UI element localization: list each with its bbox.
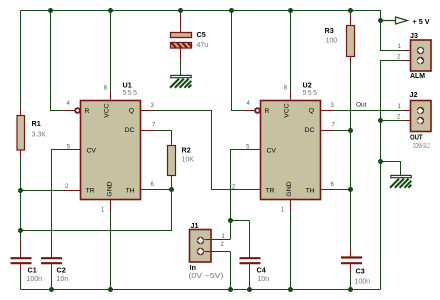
wire J1 pin1 to CV node bbox=[205, 239, 231, 241]
junction dot rail x110 bbox=[108, 8, 113, 13]
junction dot U2 GND rail bbox=[288, 287, 293, 292]
wire U1 VCC drop from rail bbox=[110, 11, 112, 91]
wire U2 reset pin stub bbox=[243, 110, 255, 112]
U1 VCC pin stub bbox=[110, 91, 112, 101]
wire C5 to ground bbox=[180, 48, 182, 59]
svg-text:47u: 47u bbox=[197, 42, 209, 49]
resistor R3 bbox=[347, 11, 355, 65]
svg-text:U2: U2 bbox=[303, 81, 312, 90]
svg-text:TH: TH bbox=[305, 188, 314, 195]
svg-text:In: In bbox=[190, 263, 197, 272]
wire left vertical from rail to R1 bbox=[20, 11, 22, 108]
svg-text:CV: CV bbox=[267, 148, 277, 155]
svg-text:VCC: VCC bbox=[284, 103, 291, 117]
svg-text:100n: 100n bbox=[355, 279, 371, 286]
svg-text:C1: C1 bbox=[28, 266, 37, 275]
timer U2 body bbox=[261, 101, 321, 200]
wire TH node down and left to node A bbox=[21, 190, 172, 231]
U1 reset bubble bbox=[74, 107, 81, 114]
J2 pin 1 circle bbox=[417, 107, 424, 114]
wire U2 CV to J1 node bbox=[231, 150, 261, 240]
wire J3 pin1 stub bbox=[403, 50, 417, 52]
wire U2 Q to J2 pin1 bbox=[321, 110, 413, 112]
wire U2 TH to node bbox=[321, 189, 351, 191]
junction dot rail x351 bbox=[348, 8, 353, 13]
J3 pin 2 circle bbox=[417, 57, 424, 64]
wire U2 DC to R3 node bbox=[321, 130, 351, 132]
svg-text:J1: J1 bbox=[191, 221, 199, 230]
capacitor C3 bbox=[341, 190, 362, 290]
svg-text:Q: Q bbox=[129, 108, 134, 115]
wire J1 pin2 to ground rail bbox=[205, 252, 231, 290]
wire U1 DC to R2 bbox=[141, 130, 172, 132]
U2 VCC pin stub bbox=[290, 91, 292, 101]
capacitor C5 drop from rail bbox=[180, 11, 182, 33]
svg-text:C3: C3 bbox=[356, 267, 365, 276]
node A dot TR junction bbox=[18, 188, 23, 193]
svg-text:J2: J2 bbox=[410, 90, 418, 99]
svg-text:10n: 10n bbox=[57, 276, 69, 283]
svg-text:J3: J3 bbox=[410, 31, 418, 40]
wire U1 CV to C2 bbox=[52, 150, 81, 241]
wire U2 GND to bottom rail bbox=[290, 200, 292, 290]
svg-text:(0V ~5V): (0V ~5V) bbox=[189, 273, 224, 280]
wire ground branch bbox=[381, 162, 401, 176]
junction dot DC R3 bbox=[348, 128, 353, 133]
wire J2 pin2 to ground vertical bbox=[381, 120, 417, 122]
wire U1 reset pin stub bbox=[63, 110, 75, 112]
J1 pin 1 circle bbox=[197, 237, 204, 244]
svg-text:C2: C2 bbox=[57, 266, 66, 275]
capacitor C4 bbox=[240, 221, 261, 290]
junction dot J2 pin2 bbox=[378, 118, 383, 123]
wire bottom ground rail bbox=[21, 289, 381, 291]
ground symbol under C5 bbox=[170, 75, 191, 87]
svg-text:555: 555 bbox=[123, 90, 138, 97]
J3 pin 1 circle bbox=[417, 47, 424, 54]
svg-text:R: R bbox=[265, 108, 270, 115]
wire left vertical R1 to node A bbox=[20, 158, 22, 241]
svg-text:Out: Out bbox=[356, 102, 367, 109]
J1 pin 2 circle bbox=[197, 248, 204, 255]
svg-text:GND: GND bbox=[286, 181, 293, 196]
svg-text:DC: DC bbox=[125, 127, 135, 134]
junction dot J1 pin2 rail bbox=[228, 287, 233, 292]
wire U2 reset drop from rail bbox=[232, 11, 243, 111]
wire U1 reset drop from rail bbox=[51, 11, 63, 111]
junction dot CV C4 J1 bbox=[228, 218, 233, 223]
junction dot U1 GND rail bbox=[108, 287, 113, 292]
U2 reset bubble bbox=[254, 107, 261, 114]
svg-text:DC: DC bbox=[305, 127, 315, 134]
wire +5V top rail bbox=[21, 11, 381, 21]
junction dot TH node U2 bbox=[348, 187, 353, 192]
ground symbol right bbox=[390, 175, 411, 187]
wire U1 GND to bottom rail bbox=[110, 200, 112, 290]
capacitor C5 negative plate hatched bbox=[171, 43, 192, 49]
svg-text:TR: TR bbox=[266, 188, 275, 195]
connector J2 body bbox=[411, 101, 432, 132]
junction dot C4 rail bbox=[247, 287, 252, 292]
junction dot +5V corner bbox=[378, 18, 383, 23]
svg-text:10K: 10K bbox=[182, 157, 195, 164]
junction dot C2 bottom rail bbox=[49, 287, 54, 292]
svg-text:TH: TH bbox=[125, 188, 134, 195]
capacitor C4 branch wire bbox=[231, 220, 250, 222]
junction dot rail x180 bbox=[178, 8, 183, 13]
capacitor C5 positive plate bbox=[171, 33, 192, 38]
svg-text:555: 555 bbox=[303, 90, 318, 97]
junction dot rail x290 bbox=[288, 8, 293, 13]
J2 pin 2 circle bbox=[417, 117, 424, 124]
junction dot rail x231 bbox=[229, 8, 234, 13]
svg-text:R: R bbox=[85, 108, 90, 115]
svg-text:100n: 100n bbox=[27, 276, 43, 283]
wire U1 TH to R2 bottom bbox=[141, 189, 172, 191]
wire U1 TR to node A bbox=[21, 190, 81, 192]
wire C1 to bottom rail corner bbox=[20, 273, 22, 290]
svg-text:C5: C5 bbox=[197, 30, 206, 39]
resistor R2 bbox=[168, 131, 176, 190]
svg-text:ALM: ALM bbox=[410, 71, 425, 80]
svg-text:CV: CV bbox=[87, 148, 97, 155]
junction dot TH R2 bbox=[169, 187, 174, 192]
junction dot ground branch bbox=[378, 159, 383, 164]
power symbol +5V arrow bbox=[382, 17, 408, 24]
junction dot rail x50 bbox=[48, 8, 53, 13]
capacitor C2 bbox=[41, 241, 62, 290]
wire U1 Q output to U2 TR bbox=[141, 111, 261, 190]
svg-text:GND: GND bbox=[107, 181, 114, 196]
svg-text:R1: R1 bbox=[32, 119, 41, 128]
svg-text:CONN-SIL2: CONN-SIL2 bbox=[413, 143, 430, 150]
svg-text:10n: 10n bbox=[258, 276, 270, 283]
svg-text:C4: C4 bbox=[257, 266, 266, 275]
svg-text:OUT: OUT bbox=[410, 133, 423, 142]
svg-text:U1: U1 bbox=[123, 81, 132, 90]
svg-text:TR: TR bbox=[86, 188, 95, 195]
wire J3 pin2 to ground vertical bbox=[381, 61, 417, 290]
capacitor C1 bbox=[11, 241, 32, 273]
connector J3 body bbox=[411, 40, 432, 71]
connector J1 body bbox=[190, 230, 212, 263]
svg-text:R2: R2 bbox=[182, 146, 191, 155]
resistor R1 bbox=[17, 108, 25, 158]
svg-text:3.3K: 3.3K bbox=[32, 132, 47, 139]
wire R3 down to DC node bbox=[350, 65, 352, 190]
svg-text:R3: R3 bbox=[325, 26, 334, 35]
wire +5V down to J3 pin1 bbox=[381, 21, 403, 51]
junction dot C3 rail bbox=[348, 287, 353, 292]
svg-text:100: 100 bbox=[326, 38, 338, 45]
svg-text:Q: Q bbox=[309, 108, 314, 115]
wire U2 VCC drop from rail bbox=[290, 11, 292, 91]
op... timer U1 body bbox=[81, 101, 141, 200]
node A dot y230 junction bbox=[18, 228, 23, 233]
svg-text:VCC: VCC bbox=[104, 103, 111, 117]
svg-text:+5V: +5V bbox=[413, 17, 430, 26]
